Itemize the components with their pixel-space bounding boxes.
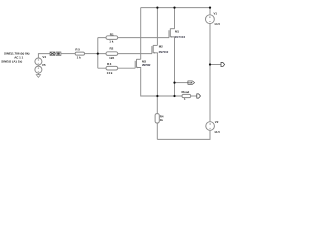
port flag Vout (bottom right arrow): [197, 94, 201, 98]
svg-text:1k: 1k: [160, 118, 164, 122]
junction dot top rail / V1: [209, 7, 211, 9]
wire: V5 to ground: [37, 73, 39, 75]
svg-text:14.5: 14.5: [214, 130, 220, 134]
wire: out flag stub: [175, 82, 188, 84]
wire: right rail V1 bottom down to V2 top: [209, 24, 211, 122]
wire: ground stub to arrow flag: [210, 64, 221, 66]
svg-text:SINE(0 {A} 1k): SINE(0 {A} 1k): [1, 59, 22, 63]
svg-text:V1: V1: [214, 12, 218, 16]
svg-text:V2: V2: [215, 120, 219, 124]
wire: M1 source down: [174, 38, 176, 96]
wire: source V4 top bend to boxes: [38, 54, 50, 58]
wire: between V4 and V5: [37, 65, 39, 66]
wire: top rail: [141, 7, 210, 9]
svg-text:2N7002: 2N7002: [142, 63, 151, 67]
svg-text:M1: M1: [175, 29, 179, 33]
nmos M1: [169, 29, 186, 39]
svg-text:1k5: 1k5: [109, 56, 114, 60]
svg-text:1k: 1k: [109, 39, 113, 43]
wire: M3 source down and bottom wire: [141, 68, 182, 96]
svg-text:14.5: 14.5: [214, 22, 220, 26]
voltage source V4 (top left, sine): [35, 55, 47, 65]
wire: between marker boxes: [55, 53, 56, 55]
resistor R2: [106, 47, 118, 60]
wire: R5 right lead to junction A: [85, 53, 98, 55]
junction dot bottom wire / M2 source / R4: [156, 95, 158, 97]
wire: M2 source down: [156, 54, 158, 96]
wire: R4 bottom lead: [156, 123, 158, 139]
svg-text:10k: 10k: [107, 71, 113, 75]
net port flag "out": [188, 81, 195, 85]
resistor R5 (series input): [75, 47, 84, 59]
nmos M2: [152, 45, 169, 55]
wire: Rload right lead to port: [191, 95, 197, 97]
wire: M2 drain from rail: [156, 8, 158, 46]
node A junction dot: [97, 53, 99, 55]
resistor Rload (bottom): [182, 90, 191, 101]
svg-text:Rload: Rload: [182, 90, 190, 94]
svg-text:2N7002: 2N7002: [159, 50, 169, 54]
svg-text:V4: V4: [42, 55, 46, 59]
svg-text:R5: R5: [75, 47, 80, 51]
marker box X2 on input wire: [56, 52, 61, 55]
wire: box2 to R5 left lead: [61, 53, 75, 55]
voltage source V1 (top right supply): [206, 12, 221, 26]
svg-text:2N7002: 2N7002: [175, 35, 186, 39]
port flag (reference, right): [221, 62, 225, 66]
marker box X1 on input wire: [50, 52, 55, 55]
wire: right rail V1 top: [209, 8, 211, 15]
svg-text:M2: M2: [159, 45, 163, 49]
junction dot top rail / M1 drain: [173, 7, 175, 9]
wire: R3 branch: [98, 67, 135, 69]
svg-text:M3: M3: [142, 60, 146, 64]
ground (left sources): [36, 75, 40, 78]
junction dot bottom wire / M1 source: [173, 95, 175, 97]
junction dot top rail / M2 drain: [156, 7, 158, 9]
svg-text:R2: R2: [110, 47, 114, 51]
resistor R3: [106, 62, 118, 75]
nmos M3: [135, 59, 151, 68]
svg-text:R3: R3: [107, 62, 112, 66]
resistor R4 (vertical): [155, 114, 164, 123]
wire: R1 branch: [98, 37, 169, 39]
wire: R4 top lead: [156, 96, 158, 114]
svg-text:V5: V5: [42, 63, 46, 67]
wire: V2 bottom to bottom rail corner: [157, 130, 210, 139]
wire: R2 branch: [98, 53, 152, 55]
wire: M3 drain from rail: [140, 8, 142, 60]
wire: vertical branch bus at x=97.8: [97, 38, 99, 69]
junction dot out flag: [173, 82, 175, 84]
resistor R1: [106, 32, 118, 43]
junction dot mid right rail: [209, 63, 211, 65]
voltage source V5 (bottom left): [35, 63, 46, 73]
voltage source V2 (bottom right supply): [206, 120, 220, 134]
svg-text:1k: 1k: [77, 55, 82, 59]
wire: M1 drain from rail: [174, 8, 176, 29]
svg-text:R1: R1: [110, 32, 114, 36]
svg-text:out: out: [188, 81, 192, 85]
